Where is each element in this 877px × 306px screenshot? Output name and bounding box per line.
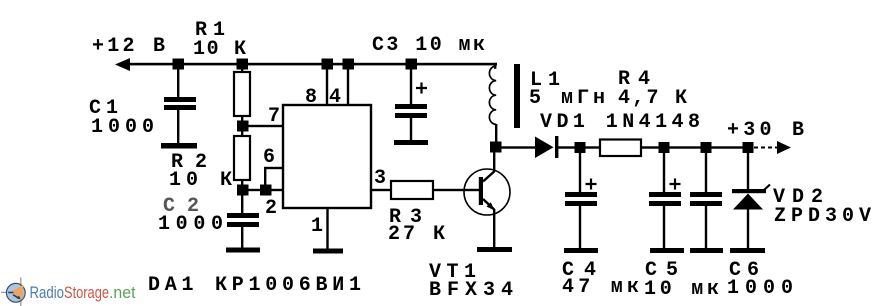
pin number 1 xyxy=(311,215,323,238)
wire pin 1 xyxy=(326,208,328,249)
ground VT1 emitter bar xyxy=(477,247,512,252)
label VD1 value xyxy=(540,111,700,134)
svg-text:4,7 К: 4,7 К xyxy=(618,87,687,110)
wire dashed to output arrow xyxy=(754,147,777,149)
node junction R1/top rail xyxy=(237,59,249,70)
ground pin 1 bar xyxy=(313,249,343,254)
resistor R4 xyxy=(600,140,641,157)
ground C2 xyxy=(226,248,260,253)
capacitor C3 xyxy=(395,65,427,140)
node junction C1/top rail xyxy=(173,59,185,70)
node junction VD2 xyxy=(743,142,754,153)
label C4 value xyxy=(562,259,639,299)
svg-text:+30 В: +30 В xyxy=(727,119,804,142)
pin number 4 xyxy=(329,86,341,109)
svg-text:3: 3 xyxy=(374,167,386,190)
svg-text:6: 6 xyxy=(263,146,275,169)
transistor Q1 VT1 xyxy=(464,152,510,248)
diode VD2 zener xyxy=(732,152,770,248)
node junction C5 xyxy=(659,142,670,153)
label R2 value xyxy=(169,151,232,192)
wire pin 4 xyxy=(347,65,349,105)
label R4 value xyxy=(618,68,687,110)
pin number 7 xyxy=(268,105,280,128)
label C5 value xyxy=(644,259,719,301)
svg-text:5 мГн: 5 мГн xyxy=(529,87,605,110)
label C1 value xyxy=(89,97,154,139)
node junction VD1/C4 xyxy=(575,142,586,153)
svg-text:2: 2 xyxy=(265,197,277,220)
resistor R3 xyxy=(391,181,433,199)
svg-text:4: 4 xyxy=(329,86,341,109)
wire C6 node to VD2 node xyxy=(707,146,749,148)
pin number 6 xyxy=(263,146,275,169)
svg-text:47 мк: 47 мк xyxy=(562,276,639,299)
inductor L1 core bar xyxy=(514,64,520,128)
node junction pin8/top rail xyxy=(322,59,334,70)
wire top supply rail xyxy=(128,63,497,66)
resistor R2 xyxy=(234,130,250,186)
node +12V input arrow xyxy=(115,58,130,71)
node +30V output arrow xyxy=(777,141,791,154)
svg-text:Radio: Radio xyxy=(30,283,65,302)
RadioStorage logo icon xyxy=(1,278,25,306)
wire node to VD1 xyxy=(500,146,535,148)
capacitor C6 xyxy=(690,152,722,248)
ground C4 xyxy=(564,248,598,253)
label C6 value xyxy=(727,259,793,300)
node junction R2/C2/pin2 xyxy=(237,185,249,196)
svg-text:+12 В: +12 В xyxy=(92,35,165,58)
wire pin 2 xyxy=(247,189,283,191)
RadioStorage logo text xyxy=(30,283,136,302)
capacitor C4 xyxy=(565,152,597,248)
node +12V supply label xyxy=(92,35,165,58)
wire pin 3 xyxy=(371,189,391,191)
svg-text:8: 8 xyxy=(305,86,317,109)
label DA1 designator xyxy=(148,274,361,297)
label C2 value xyxy=(158,195,223,236)
wire pin 7 xyxy=(247,125,283,127)
wire to R4 xyxy=(585,146,600,148)
capacitor C1 xyxy=(164,65,196,143)
node junction C6 xyxy=(701,142,712,153)
node junction pin4/top rail xyxy=(343,59,355,70)
pin number 3 xyxy=(374,167,386,190)
resistor R1 xyxy=(234,65,250,123)
capacitor C2 xyxy=(227,195,259,248)
svg-text:7: 7 xyxy=(268,105,280,128)
diode VD1 xyxy=(535,136,575,158)
wire R4 to C5 node xyxy=(641,146,707,148)
node junction pin6 tie xyxy=(260,185,272,196)
pin number 2 xyxy=(265,197,277,220)
node +30V label xyxy=(727,119,804,142)
svg-text:10 К: 10 К xyxy=(193,38,246,61)
wire pin 6 xyxy=(264,167,283,186)
capacitor C5 xyxy=(649,152,681,248)
label R1 value xyxy=(193,19,246,61)
inductor L1 xyxy=(489,63,497,143)
node junction R1/R2/pin7 xyxy=(237,121,249,132)
wire pin 8 xyxy=(326,65,328,105)
label VD2 value xyxy=(773,186,871,228)
ground C5 xyxy=(650,248,684,253)
op-amp U1: timer IC DA1 body xyxy=(283,105,371,208)
label L1 value xyxy=(529,69,605,110)
svg-text:1: 1 xyxy=(311,215,323,238)
svg-text:10 мк: 10 мк xyxy=(644,278,719,301)
ground C1 bottom bar xyxy=(161,143,197,149)
node junction C3/top rail xyxy=(406,59,418,70)
ground C6 xyxy=(690,248,723,253)
wire R3 to base xyxy=(433,189,479,191)
ground VD2 xyxy=(730,248,765,253)
label VT1 designator xyxy=(429,261,513,302)
pin number 8 xyxy=(305,86,317,109)
label R3 value xyxy=(388,206,445,246)
svg-text:.net: .net xyxy=(109,283,136,302)
svg-text:Storage: Storage xyxy=(64,283,109,302)
label C3 value xyxy=(372,34,485,57)
node junction L1/collector/VD1 xyxy=(490,142,502,153)
ground C3 bottom bar xyxy=(394,140,428,145)
